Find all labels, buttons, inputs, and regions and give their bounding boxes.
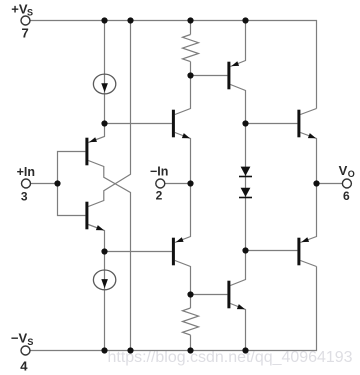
junction dot top rail x130 (127, 17, 133, 23)
svg-text:6: 6 (343, 189, 350, 203)
wire output node to Vo terminal (317, 183, 343, 185)
junction dot node C (+In) (54, 180, 60, 186)
svg-text:O: O (348, 169, 355, 179)
junction dot top rail x190 (187, 17, 193, 23)
junction dot output node (313, 180, 319, 186)
wire node B through current source I2 to -Vs rail (104, 252, 106, 351)
wire resistor R1 leads (190, 21, 192, 76)
wire +Vs top rail (30, 21, 316, 109)
wire -Vs bottom rail (30, 267, 316, 351)
transistor Q7 (output NPN) (297, 110, 316, 139)
wire node E to Q5 base (191, 75, 228, 77)
junction dot node H (242, 247, 248, 253)
transistor Q1 (input upper PNP) (85, 137, 97, 165)
diode D1 (239, 167, 252, 177)
svg-text:2: 2 (156, 189, 163, 203)
transistor Q3 (middle upper NPN) (172, 110, 190, 139)
junction dot node A (101, 120, 107, 126)
wire resistor R2 leads (190, 295, 192, 351)
resistor R1 (183, 35, 199, 62)
junction dot bottom rail x104 (101, 347, 107, 353)
junction dot node F (187, 291, 193, 297)
diode D2 (239, 188, 252, 198)
wire Q8 emitter to output node (300, 184, 316, 243)
transistor Q5 (2nd column top PNP) (227, 61, 239, 89)
wire -In terminal to node D (165, 183, 191, 185)
svg-text:4: 4 (20, 359, 28, 374)
wire Q4 collector to node F (175, 261, 191, 295)
junction dot node G (242, 120, 248, 126)
wire node C to Q1 and Q2 bases (58, 152, 86, 216)
wire Q6 collector to node H (230, 251, 245, 286)
svg-text:S: S (27, 337, 33, 347)
junction dot bottom rail x190 (187, 347, 193, 353)
transistor Q4 (middle lower PNP) (172, 237, 184, 265)
junction dot top rail x104 (101, 17, 107, 23)
wire Q2 collector crossing up to +Vs rail (88, 21, 130, 207)
svg-text:−In: −In (150, 165, 168, 179)
svg-text:3: 3 (21, 190, 28, 204)
resistor R2 (183, 308, 199, 335)
svg-text:S: S (27, 8, 33, 18)
wire Q6 emitter to -Vs rail (230, 304, 245, 351)
junction dot node E (187, 72, 193, 78)
svg-text:https://blog.csdn.net/qq_40964: https://blog.csdn.net/qq_40964193 (108, 349, 353, 366)
svg-text:−V: −V (11, 330, 28, 345)
transistor Q2 (input lower NPN) (85, 202, 104, 231)
wire Q3 collector to node E (175, 76, 191, 115)
terminal -Vs pin 4 (21, 346, 30, 355)
junction dot top rail x245 (242, 17, 248, 23)
transistor Q6 (3rd column bottom NPN) (227, 281, 245, 310)
current source I1 (93, 74, 115, 94)
wire Q2 emitter to node B (88, 225, 104, 252)
wire node F to Q6 base (191, 294, 228, 296)
junction dot bottom rail x130 (127, 347, 133, 353)
wire Q4 emitter to node D (175, 184, 191, 243)
current source I2 (93, 270, 115, 290)
terminal Vo pin 6 (342, 179, 351, 188)
junction dot node B (101, 248, 107, 254)
wire Q1 emitter to node A (88, 124, 104, 143)
wire Q7 emitter to output node (300, 133, 316, 184)
svg-text:V: V (339, 163, 348, 178)
wire Q7 collector to +Vs rail corner (300, 109, 316, 115)
wire +Vs rail through current source I1 to node A (104, 21, 106, 124)
svg-text:+V: +V (11, 1, 28, 16)
wire Q8 collector to -Vs rail corner (300, 261, 316, 267)
wire node B to Q4 base (105, 251, 172, 253)
svg-text:+In: +In (17, 165, 35, 179)
wire Q1 collector crossing down to -Vs rail (88, 161, 130, 351)
wire node A to Q3 base (105, 123, 172, 125)
svg-text:7: 7 (22, 26, 29, 41)
terminal -In pin 2 (156, 179, 165, 188)
wire +In terminal to node C (31, 183, 58, 185)
wire Q3 emitter to node D (175, 133, 191, 184)
junction dot bottom rail x245 (242, 347, 248, 353)
transistor Q8 (output PNP) (297, 237, 309, 265)
terminal +Vs pin 7 (21, 16, 30, 25)
terminal +In pin 3 (22, 179, 31, 188)
wire node H to Q8 base (246, 250, 298, 252)
wire Q5 emitter to +Vs rail (230, 21, 245, 67)
wire node G to Q7 base (246, 123, 298, 125)
junction dot node D (-In) (187, 180, 193, 186)
wire Q5 collector through diodes to node H (230, 85, 245, 251)
